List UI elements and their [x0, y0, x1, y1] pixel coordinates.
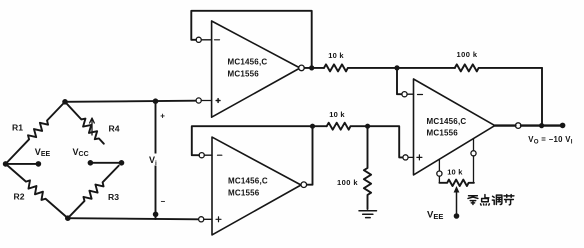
- ground: [359, 211, 377, 218]
- resistor 100k to ground: [364, 126, 371, 209]
- potentiometer 10k (offset null): [439, 180, 474, 186]
- resistor R4: [62, 99, 106, 146]
- svg-text:R2: R2: [14, 192, 25, 202]
- svg-text:10 k: 10 k: [328, 51, 344, 60]
- node: bridge right vertex: [119, 160, 125, 166]
- wire: node B to U3 plus: [368, 126, 403, 157]
- node: Vi top junction: [153, 98, 159, 104]
- resistor R2: [3, 161, 68, 219]
- wire U1 output: [304, 67, 324, 69]
- U3 plus sign: [417, 155, 422, 160]
- svg-text:−: −: [161, 197, 166, 206]
- wire: bridge top to U1 + input: [65, 101, 196, 102]
- U2 inverting input terminal: [199, 153, 204, 158]
- svg-text:MC1456,C: MC1456,C: [228, 57, 268, 66]
- node VEE terminal: [36, 161, 42, 167]
- op-amp U1 triangle: [212, 21, 300, 117]
- glyph 节: [504, 195, 514, 205]
- svg-text:100 k: 100 k: [457, 50, 478, 59]
- svg-text:MC1556: MC1556: [228, 70, 260, 79]
- svg-text:VEE: VEE: [35, 147, 51, 158]
- U3 non-inverting input terminal: [403, 155, 408, 160]
- U3 offset null pin 2 stub: [473, 139, 475, 151]
- svg-text:R4: R4: [109, 123, 120, 133]
- node: VEE wiper terminal: [454, 213, 460, 219]
- U3 output terminal: [515, 123, 521, 129]
- glyph 零: [468, 196, 478, 205]
- node: output feedback junction: [539, 123, 544, 128]
- svg-text:+: +: [160, 112, 165, 121]
- op-amp U3 triangle: [414, 79, 495, 175]
- U1 inverting input terminal: [196, 37, 201, 42]
- svg-text:10 k: 10 k: [447, 167, 463, 176]
- wire U3 output: [495, 124, 563, 126]
- node: U1 feedback junction: [309, 65, 314, 70]
- resistor 10k (U1 output): [324, 64, 397, 71]
- wire: 100k feedback right drop: [541, 68, 543, 126]
- U3 inverting input terminal: [402, 92, 407, 97]
- node: Vi bottom junction: [153, 212, 159, 218]
- node: output terminal dot: [560, 123, 566, 129]
- U1 minus sign: [215, 39, 220, 41]
- svg-text:VEE: VEE: [427, 210, 443, 221]
- potentiometer wiper arrow: [456, 188, 458, 216]
- wire: 100k feedback top: [397, 67, 455, 69]
- resistor R1: [3, 99, 68, 166]
- U1 plus sign: [216, 99, 220, 103]
- svg-text:10 k: 10 k: [329, 110, 345, 119]
- resistor 10k (U2 output): [327, 123, 368, 130]
- resistor 100k feedback: [455, 64, 542, 71]
- wire: junction to 10k: [313, 125, 327, 127]
- node: bridge bottom vertex: [65, 215, 71, 221]
- U3 minus sign: [418, 94, 423, 96]
- svg-text:MC1556: MC1556: [427, 128, 459, 137]
- label 零点调节 (zero adjust), drawn glyphs: [468, 195, 514, 205]
- node: bridge top vertex: [62, 99, 68, 105]
- R4 variable arrow: [90, 118, 95, 135]
- node: bridge left vertex: [3, 161, 9, 167]
- glyph 调: [492, 195, 502, 204]
- svg-text:VCC: VCC: [73, 147, 89, 158]
- wire VCC stub: [90, 162, 121, 164]
- svg-text:MC1456,C: MC1456,C: [427, 117, 467, 126]
- wire: node A to U3 minus: [397, 68, 402, 94]
- U1 output terminal: [299, 65, 305, 71]
- U2 plus sign: [216, 217, 221, 222]
- svg-text:MC1556: MC1556: [228, 188, 260, 197]
- svg-text:MC1456,C: MC1456,C: [228, 176, 268, 185]
- resistor R3: [65, 163, 121, 221]
- wire: bridge bottom to U2 + input: [68, 218, 199, 219]
- wire U1 feedback loop: [191, 11, 311, 68]
- U2 output terminal: [301, 182, 307, 188]
- svg-text:R1: R1: [12, 122, 23, 132]
- glyph 点: [481, 195, 490, 205]
- wire: Vi vertical: [155, 101, 157, 219]
- svg-text:R3: R3: [108, 192, 119, 202]
- node VCC terminal: [88, 160, 94, 166]
- node B: divider junction: [365, 124, 370, 129]
- U1 non-inverting input terminal: [196, 98, 201, 103]
- node: U2 feedback junction: [310, 124, 315, 129]
- U2 non-inverting input terminal: [199, 217, 204, 222]
- svg-text:100 k: 100 k: [337, 178, 358, 187]
- node A: summing junction top: [394, 65, 399, 70]
- label Vi: [148, 154, 160, 166]
- U3 offset null pin 1 stub: [438, 160, 440, 172]
- svg-text:VO = −10 VI: VO = −10 VI: [528, 135, 573, 146]
- wire U2 feedback loop: [192, 126, 313, 185]
- U2 minus sign: [218, 154, 222, 156]
- wire VEE stub: [6, 163, 39, 165]
- op-amp U2 triangle: [212, 137, 301, 235]
